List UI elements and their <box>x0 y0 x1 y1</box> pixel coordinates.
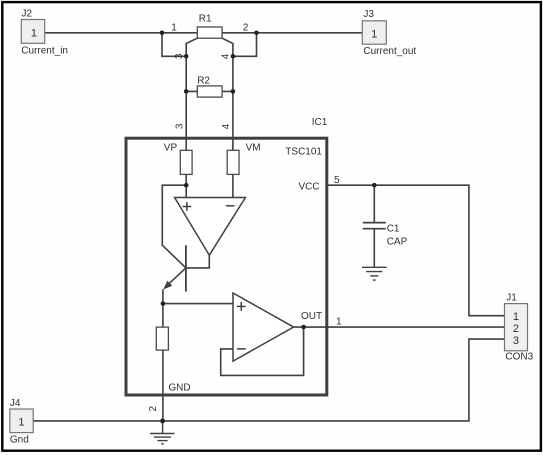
svg-text:TSC101: TSC101 <box>285 146 322 157</box>
svg-text:1: 1 <box>371 28 377 40</box>
svg-text:3: 3 <box>174 123 185 129</box>
resistor VP (internal) <box>180 150 192 174</box>
svg-text:VCC: VCC <box>299 181 320 192</box>
svg-text:Gnd: Gnd <box>10 435 29 446</box>
svg-text:OUT: OUT <box>301 311 322 322</box>
resistor R1 <box>197 27 222 38</box>
svg-text:1: 1 <box>513 311 519 323</box>
svg-text:CAP: CAP <box>387 237 408 248</box>
node junction sense right <box>231 54 236 59</box>
node junction R2 right <box>231 89 236 94</box>
svg-text:4: 4 <box>221 123 232 129</box>
svg-text:1: 1 <box>336 317 342 328</box>
wire node to opamp2 plus input <box>163 303 233 305</box>
svg-text:1: 1 <box>31 27 37 39</box>
svg-text:1: 1 <box>18 417 24 429</box>
svg-text:J4: J4 <box>10 398 21 409</box>
op-amp A1 plus sign <box>183 202 192 211</box>
node junction VCC/C1 <box>372 183 377 188</box>
svg-text:C1: C1 <box>387 223 400 234</box>
ground (C1) <box>362 267 387 280</box>
svg-text:Current_in: Current_in <box>21 46 68 57</box>
node junction top-right <box>254 31 259 36</box>
wire VCC net to J1 pin1 <box>327 185 505 316</box>
wire bottom rail J4 to J1 pin3 <box>33 339 504 421</box>
wire R2 leads <box>186 90 233 92</box>
connector J3 <box>362 21 386 44</box>
svg-text:VM: VM <box>246 142 261 153</box>
wire right bypass node <box>233 33 257 57</box>
wire emitter to node <box>162 289 164 303</box>
wire feedback loop <box>221 327 304 375</box>
svg-text:J3: J3 <box>363 9 374 20</box>
svg-text:3: 3 <box>513 335 519 347</box>
op-amp A2 minus sign <box>237 348 246 350</box>
node junction GND <box>160 419 165 424</box>
svg-text:4: 4 <box>221 53 232 59</box>
connector J4 <box>10 409 33 433</box>
transistor Q1 emitter arrowhead <box>163 281 172 290</box>
wire VM net R2 to IC pin4 <box>232 56 234 150</box>
wire VM resistor to opamp minus <box>232 174 234 197</box>
node junction OUT <box>301 325 306 330</box>
node junction emitter <box>161 301 166 306</box>
svg-text:GND: GND <box>168 383 190 394</box>
wire VP net R2 to IC pin3 <box>185 56 187 150</box>
svg-text:CON3: CON3 <box>505 352 533 363</box>
svg-text:2: 2 <box>243 22 249 33</box>
wire top rail J2 to J3 <box>45 32 363 34</box>
transistor Q1 base bar <box>185 245 187 291</box>
svg-text:VP: VP <box>164 143 178 154</box>
svg-text:J1: J1 <box>506 292 517 303</box>
transistor Q1 emitter <box>167 268 186 286</box>
node junction top-left <box>160 31 165 36</box>
wire collector branch <box>162 185 186 268</box>
wire C1 top lead <box>373 185 375 222</box>
svg-text:3: 3 <box>174 53 185 59</box>
node junction R2 left <box>184 89 189 94</box>
connector J1 CON3 <box>505 304 528 351</box>
op-amp A2 plus sign <box>237 302 246 311</box>
wire OUT net to J1 pin2 <box>294 326 505 328</box>
wire R1 pin3 lead <box>186 38 197 56</box>
svg-text:IC1: IC1 <box>312 117 328 128</box>
wire node to gain resistor <box>162 304 164 328</box>
wire opamp1 output to base <box>186 255 209 268</box>
wire R1 pin4 lead <box>222 38 233 56</box>
svg-text:J2: J2 <box>22 9 33 20</box>
svg-text:2: 2 <box>148 405 159 411</box>
svg-text:5: 5 <box>334 175 340 186</box>
ground (bottom GND net) <box>150 421 174 444</box>
svg-text:R1: R1 <box>199 14 212 25</box>
op-amp A1 (input stage, pointing down) <box>175 198 246 256</box>
wire left bypass node <box>162 33 186 57</box>
resistor internal gain <box>156 327 168 350</box>
node junction sense left <box>184 54 189 59</box>
connector J2 <box>21 20 44 44</box>
resistor R2 <box>197 86 222 97</box>
svg-text:1: 1 <box>171 22 177 33</box>
IC U1 TSC101 body <box>126 138 327 395</box>
capacitor C1 <box>363 223 386 229</box>
svg-text:2: 2 <box>513 323 519 335</box>
op-amp A1 minus sign <box>226 205 235 207</box>
op-amp A2 (output stage, pointing right) <box>233 293 294 361</box>
wire C1 bottom lead <box>373 229 375 267</box>
svg-text:R2: R2 <box>197 76 210 87</box>
svg-text:Current_out: Current_out <box>363 46 416 57</box>
node junction VP <box>184 183 189 188</box>
wire VP resistor to opamp plus <box>185 174 187 197</box>
wire GND net resistor to bottom rail <box>162 350 164 421</box>
resistor VM (internal) <box>227 150 239 174</box>
